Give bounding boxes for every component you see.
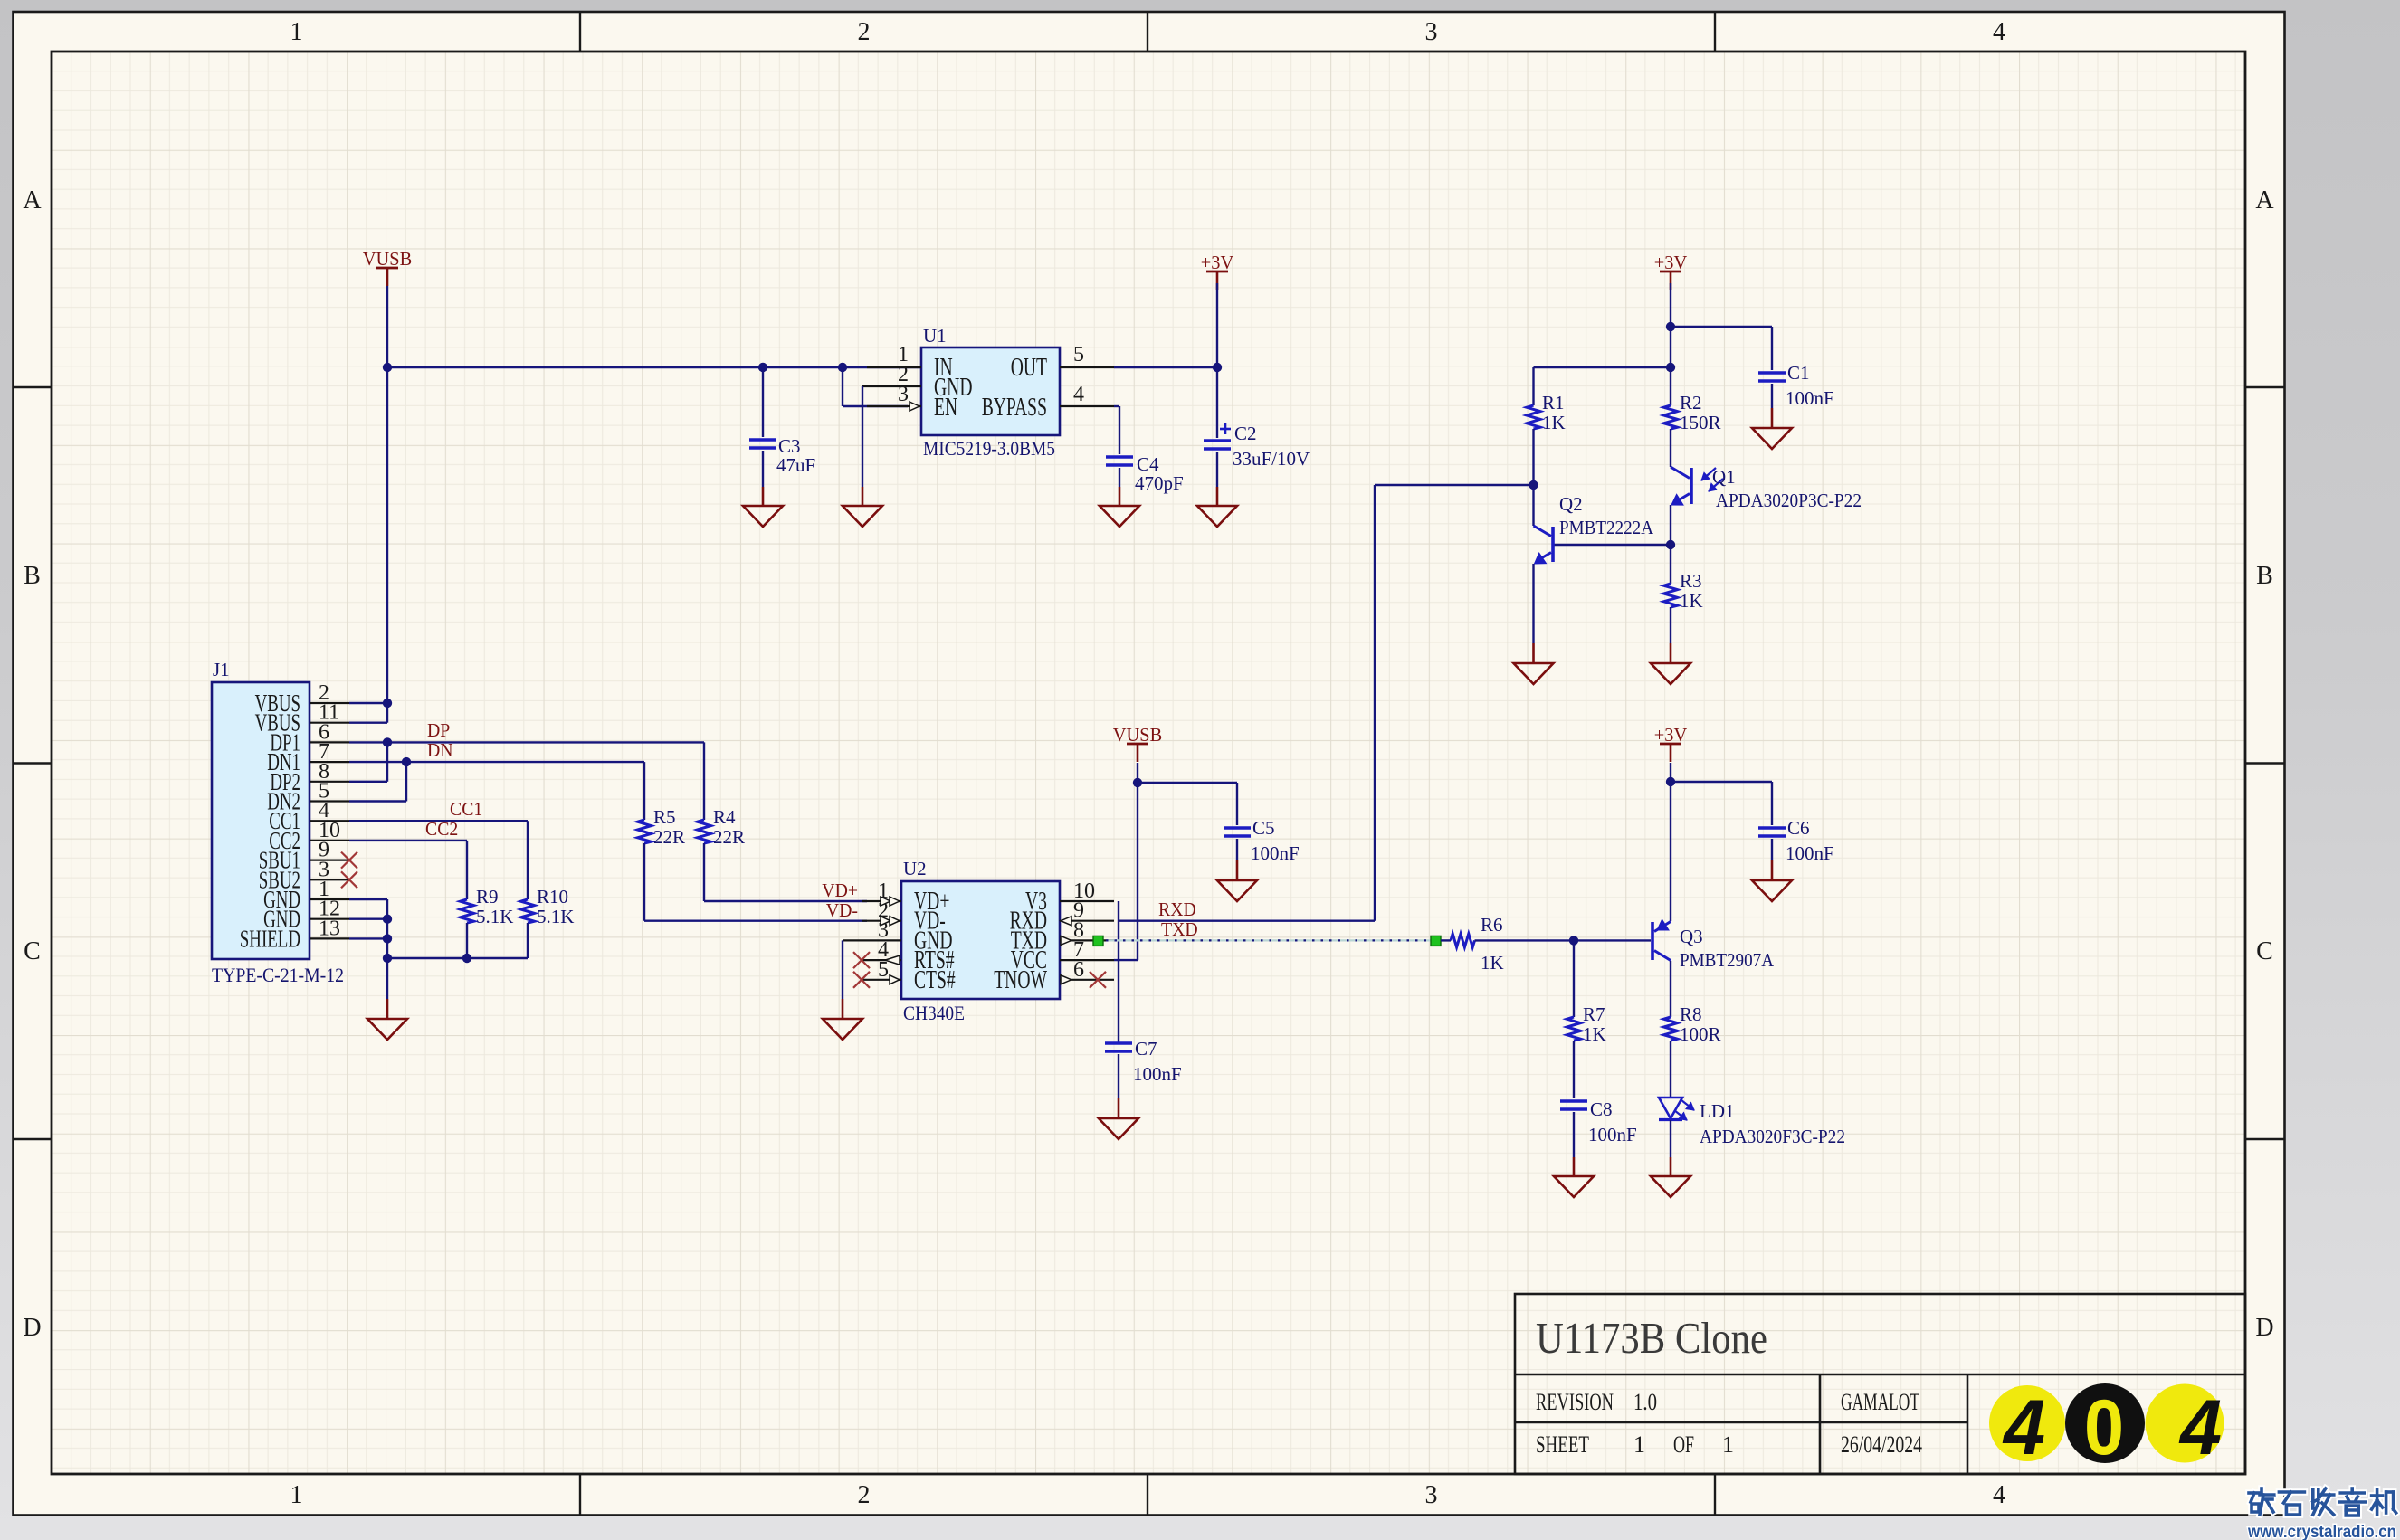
svg-text:D: D <box>23 1314 41 1342</box>
svg-text:BYPASS: BYPASS <box>982 394 1047 422</box>
J1 pin 12 GND <box>310 918 349 920</box>
svg-text:100nF: 100nF <box>1786 842 1834 864</box>
ground below C3 <box>743 506 783 527</box>
svg-text:2: 2 <box>858 1481 871 1509</box>
wire VCC row <box>1114 959 1138 961</box>
power port +3V (Q3) <box>1660 743 1681 746</box>
J1 pin 8 DP2 <box>310 781 349 783</box>
ground below R3 <box>1651 663 1690 684</box>
wire R5 to VD- <box>643 843 645 921</box>
svg-text:5: 5 <box>878 958 889 982</box>
resistor R6 1K (horizontal) <box>1441 939 1451 941</box>
capacitor C3 <box>758 363 767 372</box>
svg-text:TXD: TXD <box>1161 918 1198 940</box>
wire base of Q2 <box>1553 544 1671 546</box>
U2 pin 10 V3 <box>1060 900 1114 902</box>
U2 pin 3 GND <box>862 939 901 941</box>
svg-text:100nF: 100nF <box>1251 842 1300 864</box>
svg-text:1: 1 <box>1633 1431 1645 1458</box>
J1 pin 5 DN2 <box>310 800 349 802</box>
svg-text:150R: 150R <box>1680 412 1721 433</box>
U2 pin 8 TXD <box>1060 939 1114 941</box>
wire +3V to rail <box>1216 283 1218 367</box>
wire to C5 <box>1138 782 1237 784</box>
green net marker right <box>1431 936 1441 946</box>
svg-text:TNOW: TNOW <box>994 966 1047 994</box>
wire J1 VBUS pins to VUSB <box>349 702 387 704</box>
U2 pin 1 VD+ <box>862 900 901 902</box>
svg-text:1K: 1K <box>1680 590 1703 612</box>
svg-text:R4: R4 <box>713 806 736 828</box>
no-connect X on RTS# <box>853 952 870 968</box>
svg-text:MIC5219-3.0BM5: MIC5219-3.0BM5 <box>923 437 1055 460</box>
wire DN to R5 <box>406 761 644 763</box>
wire CC1 to R10 <box>349 820 528 822</box>
J1 pin 3 SBU2 <box>310 879 349 880</box>
svg-text:R10: R10 <box>537 886 568 908</box>
svg-text:3: 3 <box>1425 1481 1438 1509</box>
svg-text:OF: OF <box>1673 1431 1694 1458</box>
IC U2 CH340E <box>901 881 1060 999</box>
wire RXD long route <box>1119 920 1375 922</box>
ground below C5 <box>1217 880 1257 901</box>
wire VUSB vertical to J1 <box>386 286 388 703</box>
wire GND bus of J1 <box>349 898 387 900</box>
svg-text:RXD: RXD <box>1158 898 1196 920</box>
watermark crystalradio <box>2249 1488 2274 1515</box>
connector J1 TYPE-C-21-M-12 <box>212 682 310 959</box>
no-connect X on TNOW <box>1090 972 1106 988</box>
svg-text:1: 1 <box>1722 1431 1734 1458</box>
no-connect X on SBU1 <box>341 852 357 869</box>
title block <box>1515 1294 2245 1474</box>
TXD unrouted dotted net <box>1106 939 1431 941</box>
node VUSB/C5 junction <box>1133 778 1142 787</box>
wire to C1 <box>1671 326 1772 328</box>
no-connect X on SBU2 <box>341 871 357 888</box>
logo 404 <box>1989 1383 2224 1471</box>
svg-text:4: 4 <box>2002 1384 2045 1471</box>
svg-text:U2: U2 <box>903 858 927 879</box>
svg-text:VUSB: VUSB <box>363 248 413 270</box>
svg-text:100R: 100R <box>1680 1023 1721 1045</box>
svg-text:C2: C2 <box>1234 423 1257 444</box>
U2 pin 5 CTS# <box>862 979 901 981</box>
ground below U2 <box>823 1019 862 1040</box>
svg-text:D: D <box>2255 1314 2273 1342</box>
svg-text:R7: R7 <box>1583 1003 1605 1025</box>
svg-text:4: 4 <box>1993 18 2005 46</box>
svg-text:100nF: 100nF <box>1588 1124 1637 1145</box>
svg-text:13: 13 <box>319 917 340 940</box>
svg-text:REVISION: REVISION <box>1536 1389 1614 1415</box>
resistor R8 100R <box>1664 1017 1678 1041</box>
svg-text:CC1: CC1 <box>450 798 482 820</box>
J1 pin 9 SBU1 <box>310 859 349 860</box>
resistor R10 5.1K <box>521 899 535 923</box>
transistor Q2 PMBT2222A <box>1532 485 1534 526</box>
U2 pin 2 VD- <box>862 920 901 922</box>
ground below C4 <box>1100 506 1139 527</box>
wire OUT rail <box>1114 366 1217 368</box>
J1 pin 13 SHIELD <box>310 937 349 939</box>
ground below C1 <box>1752 428 1792 449</box>
node RXD/R1/Q2 junction <box>1529 480 1538 490</box>
svg-text:VD-: VD- <box>826 899 858 921</box>
svg-text:PMBT2907A: PMBT2907A <box>1680 949 1775 971</box>
svg-text:www.crystalradio.cn: www.crystalradio.cn <box>2247 1523 2396 1540</box>
wire U1 GND to ground <box>862 386 863 487</box>
power port VUSB (middle) <box>1127 743 1148 746</box>
svg-text:1: 1 <box>290 1481 303 1509</box>
svg-text:1: 1 <box>290 18 303 46</box>
svg-text:100nF: 100nF <box>1786 387 1834 409</box>
capacitor C5 <box>1224 826 1251 829</box>
node VUSB/main-rail junction <box>383 363 392 372</box>
svg-text:+3V: +3V <box>1654 252 1688 273</box>
svg-text:4: 4 <box>2178 1384 2222 1471</box>
wire +3V down to Q3 emitter <box>1670 763 1671 921</box>
wire R4 to VD+ <box>703 843 705 901</box>
wire +3V down <box>1670 283 1671 405</box>
polarized capacitor C2 <box>1216 367 1218 438</box>
svg-text:B: B <box>24 562 41 590</box>
J1 pin 6 DP1 <box>310 741 349 743</box>
svg-text:APDA3020F3C-P22: APDA3020F3C-P22 <box>1700 1126 1845 1147</box>
wire DN tie (DN1-DN2) <box>349 761 406 763</box>
U2 pin arrows <box>881 897 890 906</box>
svg-text:VD+: VD+ <box>822 879 858 901</box>
resistor R4 22R <box>698 820 711 843</box>
wire EN tie from rail <box>838 363 847 372</box>
svg-text:5.1K: 5.1K <box>537 906 574 927</box>
svg-text:EN: EN <box>934 394 957 422</box>
power port VUSB (top-left) <box>376 267 398 270</box>
capacitor C6 <box>1758 826 1786 829</box>
svg-text:1K: 1K <box>1542 412 1566 433</box>
U2 pin 6 TNOW <box>1060 979 1114 981</box>
svg-text:DN: DN <box>427 739 453 761</box>
svg-text:5: 5 <box>1073 343 1084 366</box>
svg-text:C: C <box>2256 937 2273 965</box>
wire CC2 to R9 <box>349 840 467 841</box>
svg-text:LD1: LD1 <box>1700 1100 1735 1122</box>
power port +3V (upper right) <box>1660 271 1681 273</box>
wire V3 tie to VCC/C7 <box>1118 901 1119 1043</box>
U2 pin 7 VCC <box>1060 959 1114 961</box>
node DN <box>402 757 411 766</box>
svg-text:R5: R5 <box>653 806 676 828</box>
U2 pin 4 RTS# <box>862 959 901 961</box>
svg-text:3: 3 <box>1425 18 1438 46</box>
power port +3V above C2 <box>1206 271 1228 273</box>
wire to C6 <box>1671 781 1772 783</box>
svg-text:1K: 1K <box>1481 952 1504 974</box>
svg-text:A: A <box>23 186 42 214</box>
svg-text:C: C <box>24 937 41 965</box>
ground below C8 <box>1554 1176 1594 1197</box>
wire U2 GND to ground <box>843 939 862 941</box>
U1 pin 1 IN <box>867 366 921 368</box>
svg-text:OUT: OUT <box>1011 354 1047 382</box>
phototransistor Q1 APDA3020P3C-P22 <box>1670 429 1671 467</box>
wire DP tie (DP1-DP2) <box>349 741 387 743</box>
svg-text:APDA3020P3C-P22: APDA3020P3C-P22 <box>1716 490 1862 511</box>
wire Q3 base <box>1574 939 1651 941</box>
wire BYPASS to C4 <box>1114 405 1119 407</box>
svg-text:Q3: Q3 <box>1680 926 1703 947</box>
node Q1.E/R3/Q2.B junction <box>1666 540 1675 549</box>
resistor R1 1K <box>1527 405 1540 429</box>
svg-text:26/04/2024: 26/04/2024 <box>1841 1431 1922 1458</box>
wire rail to R1 <box>1534 366 1671 368</box>
U2 pin 9 RXD <box>1060 920 1114 922</box>
svg-text:100nF: 100nF <box>1133 1063 1182 1085</box>
svg-text:1K: 1K <box>1583 1023 1606 1045</box>
svg-text:4: 4 <box>1073 383 1084 406</box>
J1 pin 10 CC2 <box>310 840 349 841</box>
svg-text:R1: R1 <box>1542 392 1565 414</box>
svg-text:R2: R2 <box>1680 392 1702 414</box>
node DP <box>383 737 392 746</box>
svg-text:22R: 22R <box>713 826 745 848</box>
node R1 tap <box>1666 363 1675 372</box>
svg-text:CC2: CC2 <box>425 818 458 840</box>
wire DP to R4 <box>387 741 704 743</box>
svg-text:22R: 22R <box>653 826 685 848</box>
svg-text:U1173B Clone: U1173B Clone <box>1536 1313 1767 1363</box>
svg-text:1.0: 1.0 <box>1633 1389 1657 1415</box>
J1 pin 11 VBUS <box>310 722 349 724</box>
J1 pin 4 CC1 <box>310 820 349 822</box>
svg-text:B: B <box>2256 562 2273 590</box>
svg-text:5.1K: 5.1K <box>476 906 513 927</box>
svg-text:R3: R3 <box>1680 570 1702 592</box>
svg-text:C6: C6 <box>1787 817 1810 839</box>
svg-text:VUSB: VUSB <box>1113 724 1163 746</box>
svg-text:R9: R9 <box>476 886 499 908</box>
node C6 junction <box>1666 777 1675 786</box>
svg-text:C8: C8 <box>1590 1098 1613 1120</box>
svg-text:6: 6 <box>1073 958 1084 982</box>
svg-text:47uF: 47uF <box>776 454 815 476</box>
svg-text:TYPE-C-21-M-12: TYPE-C-21-M-12 <box>212 964 344 986</box>
svg-text:R6: R6 <box>1481 914 1503 936</box>
svg-text:2: 2 <box>858 18 871 46</box>
green net marker left <box>1093 936 1103 946</box>
resistor R9 5.1K <box>461 899 474 923</box>
U1 pin 5 OUT <box>1060 366 1114 368</box>
resistor R3 1K <box>1670 545 1671 584</box>
wire VUSB middle down to VCC <box>1137 763 1138 960</box>
svg-text:A: A <box>2255 186 2274 214</box>
J1 pin 2 VBUS <box>310 702 349 704</box>
node C1 tap <box>1666 322 1675 331</box>
ground below J1 <box>367 1019 407 1040</box>
svg-text:SHIELD: SHIELD <box>240 925 300 952</box>
ground below U1 <box>843 506 882 527</box>
svg-text:33uF/10V: 33uF/10V <box>1233 448 1310 470</box>
voltage regulator U1 MIC5219-3.0BM5 <box>921 347 1060 435</box>
svg-text:Q1: Q1 <box>1712 466 1736 488</box>
border zone ticks <box>579 12 581 52</box>
svg-text:C5: C5 <box>1252 817 1275 839</box>
svg-text:470pF: 470pF <box>1135 472 1184 494</box>
svg-text:+3V: +3V <box>1201 252 1234 273</box>
svg-text:J1: J1 <box>213 659 230 680</box>
ground below C6 <box>1752 880 1792 901</box>
U1 pin 3 EN <box>867 405 921 407</box>
resistor R2 150R <box>1664 405 1678 429</box>
node Q3 base junction <box>1569 936 1578 945</box>
U1 pin 2 GND <box>862 385 921 387</box>
svg-text:U1: U1 <box>923 325 947 347</box>
svg-text:SHEET: SHEET <box>1536 1431 1589 1458</box>
capacitor C7 <box>1105 1041 1132 1044</box>
svg-text:4: 4 <box>1993 1481 2005 1509</box>
svg-text:CTS#: CTS# <box>914 966 956 994</box>
capacitor C8 <box>1560 1099 1587 1102</box>
J1 pin 1 GND <box>310 898 349 900</box>
wire main rail y=406 to U1.IN <box>387 366 921 368</box>
svg-text:R8: R8 <box>1680 1003 1702 1025</box>
resistor R7 1K <box>1573 940 1575 1017</box>
U1 pin 4 BYPASS <box>1060 405 1114 407</box>
svg-text:CH340E: CH340E <box>903 1002 965 1024</box>
transistor Q3 PMBT2907A (PNP) <box>1651 922 1654 960</box>
svg-text:+3V: +3V <box>1654 724 1688 746</box>
LED LD1 APDA3020F3C-P22 <box>1659 1098 1682 1118</box>
svg-text:3: 3 <box>898 383 909 406</box>
no-connect X on CTS# <box>853 972 870 988</box>
svg-text:C1: C1 <box>1787 362 1810 384</box>
capacitor C1 <box>1758 371 1786 374</box>
ground below Q2 <box>1514 663 1554 684</box>
capacitor C4 <box>1106 455 1133 458</box>
ground below C2 <box>1197 506 1237 527</box>
node C2 junction <box>1213 363 1222 372</box>
svg-text:0: 0 <box>2084 1384 2124 1471</box>
svg-text:C7: C7 <box>1135 1038 1157 1060</box>
ground below LD1 <box>1651 1176 1690 1197</box>
J1 pin 7 DN1 <box>310 761 349 763</box>
svg-text:DP: DP <box>427 719 450 741</box>
svg-text:GAMALOT: GAMALOT <box>1841 1389 1919 1415</box>
svg-text:Q2: Q2 <box>1559 493 1583 515</box>
ground below C7 <box>1099 1118 1138 1139</box>
svg-text:PMBT2222A: PMBT2222A <box>1559 517 1654 538</box>
resistor R5 22R <box>638 820 652 843</box>
